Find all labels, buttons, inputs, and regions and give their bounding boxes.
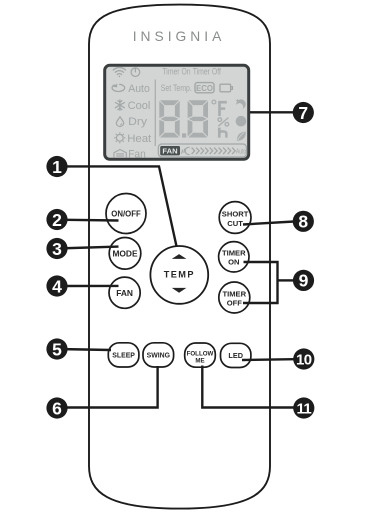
- wire callout-3 line: [57, 247, 119, 249]
- button SLEEP: [108, 343, 139, 367]
- svg-text:TEMP: TEMP: [164, 270, 195, 280]
- wire callout-4 line: [57, 285, 119, 288]
- svg-text:TIMER: TIMER: [222, 289, 246, 298]
- LCD h segment glyph: [219, 128, 226, 138]
- LCD vent icon (Fan): [114, 150, 126, 158]
- callout 1: [46, 156, 67, 177]
- LCD dot indicator: [236, 116, 247, 127]
- LCD auto-mode circular arrow icon: [112, 83, 125, 91]
- wire callout-11 line: [202, 366, 294, 408]
- LCD sleep moon icon: [235, 99, 245, 109]
- svg-text:FOLLOW: FOLLOW: [187, 350, 214, 357]
- LCD power icon: [131, 68, 140, 77]
- button MODE: [109, 238, 141, 270]
- callout 7: [293, 102, 314, 123]
- svg-text:Set Temp.: Set Temp.: [161, 83, 192, 93]
- svg-text:ECO: ECO: [196, 84, 213, 93]
- svg-text:ME: ME: [195, 357, 204, 364]
- callout 3: [46, 238, 67, 259]
- LCD Timer Off text: [193, 66, 222, 76]
- svg-text:10: 10: [296, 351, 312, 368]
- LCD FAN label box: [160, 146, 180, 156]
- callout 9: [293, 270, 314, 291]
- LCD panel: [105, 65, 249, 159]
- LCD F segment glyph: [219, 101, 227, 116]
- svg-text:SLEEP: SLEEP: [112, 353, 135, 360]
- button SWING: [143, 343, 174, 367]
- LCD eco leaf icon: [237, 132, 246, 141]
- svg-text:ON: ON: [228, 258, 239, 267]
- callout 4: [46, 275, 67, 296]
- svg-text:5: 5: [52, 339, 62, 359]
- svg-text:TIMER: TIMER: [222, 249, 246, 258]
- LCD Timer On text: [162, 66, 190, 76]
- svg-text:1: 1: [52, 157, 62, 177]
- svg-text:Auto: Auto: [236, 147, 246, 156]
- LCD percent glyph: [218, 118, 229, 127]
- callout 10: [293, 348, 314, 369]
- wire callout-8 line: [243, 222, 294, 225]
- callout 8: [293, 211, 314, 232]
- LCD Set Temp. text: [161, 83, 192, 93]
- svg-text:9: 9: [299, 271, 309, 291]
- LCD fan speed icon: [182, 147, 190, 154]
- wire callout-10 line: [242, 358, 294, 361]
- callout 2: [46, 209, 67, 230]
- LCD snowflake icon (Cool): [115, 100, 124, 110]
- wire callout-7 line: [250, 111, 293, 113]
- wire callout-5 line: [57, 349, 111, 350]
- button FOLLOW ME: [185, 343, 216, 367]
- callout 5: [46, 338, 67, 359]
- wire callout-1 line: [57, 166, 177, 246]
- LCD battery icon: [220, 84, 232, 92]
- button TIMER ON: [219, 242, 249, 272]
- button FAN: [109, 277, 140, 308]
- button TIMER OFF: [219, 282, 250, 313]
- LCD digit 8 (ones): [188, 100, 208, 137]
- LCD fan speed chevrons: [192, 148, 236, 154]
- remote body outline: [89, 5, 270, 509]
- LCD Cool text: [128, 100, 151, 112]
- wire callout-6 line: [57, 366, 158, 408]
- svg-text:7: 7: [298, 103, 308, 123]
- svg-text:CUT: CUT: [227, 219, 243, 228]
- button ON/OFF: [106, 194, 146, 234]
- LCD sun icon (Heat): [114, 132, 125, 143]
- svg-text:3: 3: [52, 239, 62, 259]
- LCD digit 8 (tens): [159, 100, 179, 137]
- svg-text:MODE: MODE: [112, 249, 138, 259]
- svg-text:6: 6: [52, 398, 62, 418]
- svg-text:8: 8: [298, 212, 308, 232]
- wire callout-9 bracket: [243, 262, 293, 303]
- svg-text:Fan: Fan: [128, 149, 146, 161]
- button SHORT CUT: [219, 202, 251, 234]
- svg-text:SWING: SWING: [147, 353, 170, 360]
- svg-text:Auto: Auto: [128, 83, 150, 95]
- svg-text:Heat: Heat: [127, 133, 152, 145]
- svg-text:FAN: FAN: [116, 288, 133, 298]
- LCD ECO indicator: [195, 83, 214, 93]
- button LED: [221, 343, 251, 367]
- svg-text:FAN: FAN: [162, 147, 177, 156]
- svg-text:4: 4: [52, 276, 62, 296]
- svg-text:Dry: Dry: [128, 116, 147, 128]
- LCD Dry text: [128, 116, 147, 128]
- svg-text:INSIGNIA: INSIGNIA: [133, 29, 226, 44]
- LCD fan indicator box: [158, 144, 246, 157]
- svg-text:2: 2: [52, 210, 62, 230]
- LCD decimal point: [182, 133, 186, 137]
- LCD divider line: [154, 80, 156, 147]
- LCD fan Auto text: [236, 147, 246, 156]
- LCD Fan text: [128, 149, 146, 161]
- svg-text:LED: LED: [228, 351, 243, 360]
- svg-text:ON/OFF: ON/OFF: [111, 209, 141, 218]
- svg-text:Timer On: Timer On: [162, 66, 190, 76]
- svg-text:OFF: OFF: [227, 298, 243, 307]
- svg-text:Timer Off: Timer Off: [193, 66, 222, 76]
- LCD wifi icon: [113, 67, 125, 77]
- wire callout-2 line: [57, 218, 119, 221]
- LCD degree symbol: [212, 100, 216, 104]
- svg-text:Cool: Cool: [128, 100, 151, 112]
- button TEMP: [150, 246, 208, 304]
- LCD Heat text: [127, 133, 152, 145]
- callout 11: [293, 397, 314, 418]
- svg-text:SHORT: SHORT: [222, 210, 249, 219]
- LCD droplet icon (Dry): [116, 117, 123, 127]
- callout 6: [46, 397, 67, 418]
- svg-text:11: 11: [296, 400, 311, 417]
- LCD Auto text: [128, 83, 150, 95]
- INSIGNIA logo: [133, 29, 226, 44]
